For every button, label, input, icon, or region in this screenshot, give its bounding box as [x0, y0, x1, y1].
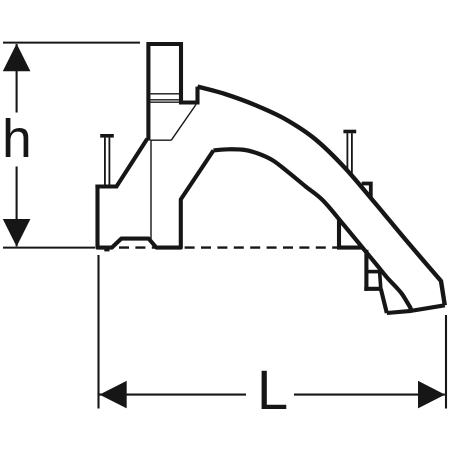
right bracket left edge and base — [337, 219, 362, 248]
left bracket outline with bottom notch and inner curve of arm — [95, 139, 147, 187]
right bracket foot step — [366, 270, 379, 274]
hidden edge vertical V1 — [150, 140, 152, 239]
h arrow up — [3, 44, 31, 72]
h dimension line upper segment — [16, 44, 18, 113]
left screw pin shank right — [108, 138, 110, 186]
L dimension line right segment — [294, 394, 445, 396]
L arrow left — [100, 381, 127, 409]
top clamp box — [148, 44, 197, 141]
h top extension line — [3, 42, 140, 44]
right bracket foot bottom — [364, 287, 381, 291]
clamp slot line upper — [151, 93, 180, 95]
h bottom extension line — [3, 247, 95, 249]
hidden edge diagonal D1 — [171, 105, 196, 141]
arm outer (upper) curve with end face — [198, 87, 445, 306]
clamp seat line 2 — [151, 101, 181, 103]
right bracket top tab — [362, 184, 371, 198]
right screw pin shank right — [351, 133, 353, 173]
arm inner (lower) curve — [214, 149, 412, 310]
L dimension line left segment — [100, 394, 247, 396]
left screw pin shank left — [104, 138, 106, 186]
left bracket left edge and notched base, arm lower-left edge — [98, 150, 214, 247]
right screw pin cap — [343, 130, 356, 134]
dashed floor reference line — [119, 246, 339, 248]
left screw tip below base — [104, 248, 109, 251]
outlet bottom edge — [387, 305, 445, 313]
svg-text:h: h — [2, 110, 32, 169]
left screw pin cap — [100, 134, 114, 138]
L right extension line — [445, 315, 447, 409]
hidden edge horizontal H1 — [151, 139, 172, 141]
L arrow right — [418, 381, 445, 409]
right bracket foot left edge — [364, 250, 368, 291]
right bracket foot right edge — [380, 272, 381, 289]
svg-text:L: L — [257, 358, 288, 421]
outlet left edge — [381, 289, 387, 313]
h dimension line lower segment — [16, 167, 18, 247]
clamp seat line 1 — [151, 99, 181, 101]
L left extension line — [97, 255, 99, 409]
right screw pin shank left — [346, 133, 348, 168]
h arrow down — [3, 219, 31, 247]
